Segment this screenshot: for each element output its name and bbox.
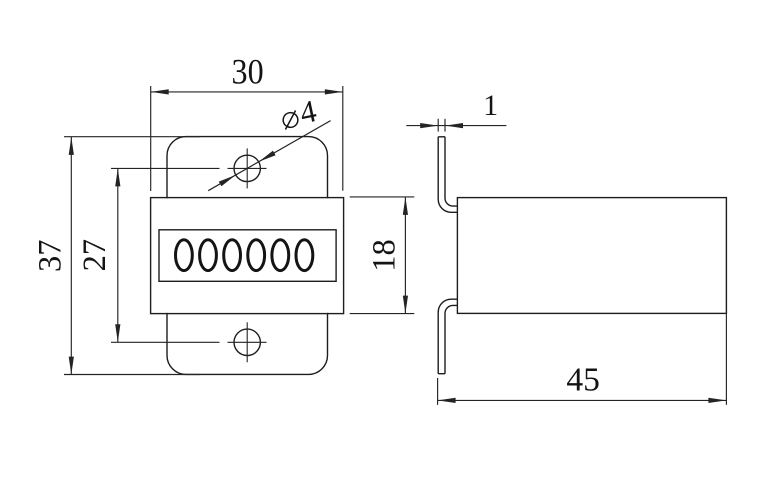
svg-text:37: 37 xyxy=(32,240,68,272)
svg-text:45: 45 xyxy=(566,362,600,399)
svg-text:18: 18 xyxy=(367,239,403,272)
svg-text:30: 30 xyxy=(232,51,264,91)
svg-text:4: 4 xyxy=(297,93,320,131)
svg-text:27: 27 xyxy=(77,239,113,272)
svg-text:1: 1 xyxy=(483,89,498,122)
